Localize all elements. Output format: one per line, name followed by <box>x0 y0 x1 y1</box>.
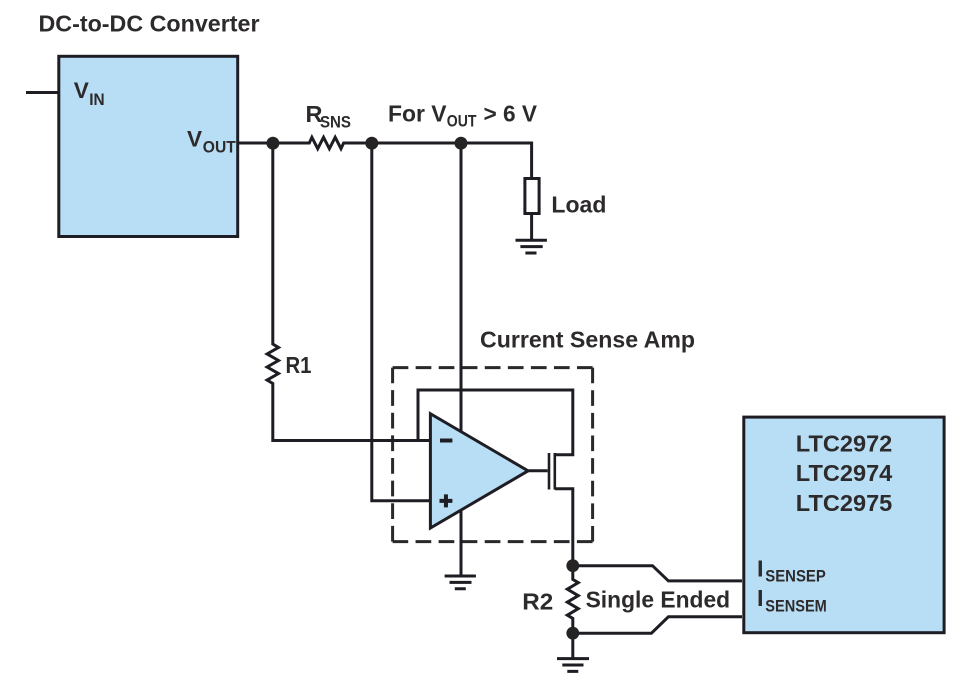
svg-text:For V: For V <box>388 100 447 126</box>
svg-text:I: I <box>757 555 764 581</box>
svg-text:> 6 V: > 6 V <box>484 100 538 126</box>
svg-text:SENSEP: SENSEP <box>765 567 826 586</box>
svg-text:Load: Load <box>551 192 606 218</box>
svg-text:V: V <box>74 78 89 103</box>
svg-text:R2: R2 <box>522 588 553 614</box>
svg-text:LTC2972: LTC2972 <box>796 430 893 456</box>
svg-text:OUT: OUT <box>203 139 236 157</box>
svg-text:V: V <box>187 127 202 152</box>
svg-text:LTC2975: LTC2975 <box>796 490 893 516</box>
svg-text:OUT: OUT <box>447 113 477 131</box>
svg-text:IN: IN <box>89 91 104 109</box>
svg-text:R1: R1 <box>286 352 312 378</box>
svg-text:SNS: SNS <box>320 114 351 132</box>
svg-text:DC-to-DC Converter: DC-to-DC Converter <box>39 10 260 36</box>
svg-text:I: I <box>757 585 764 611</box>
svg-text:LTC2974: LTC2974 <box>796 460 893 486</box>
svg-text:SENSEM: SENSEM <box>765 596 827 615</box>
svg-text:Single Ended: Single Ended <box>586 586 731 612</box>
svg-text:Current Sense Amp: Current Sense Amp <box>480 327 695 353</box>
